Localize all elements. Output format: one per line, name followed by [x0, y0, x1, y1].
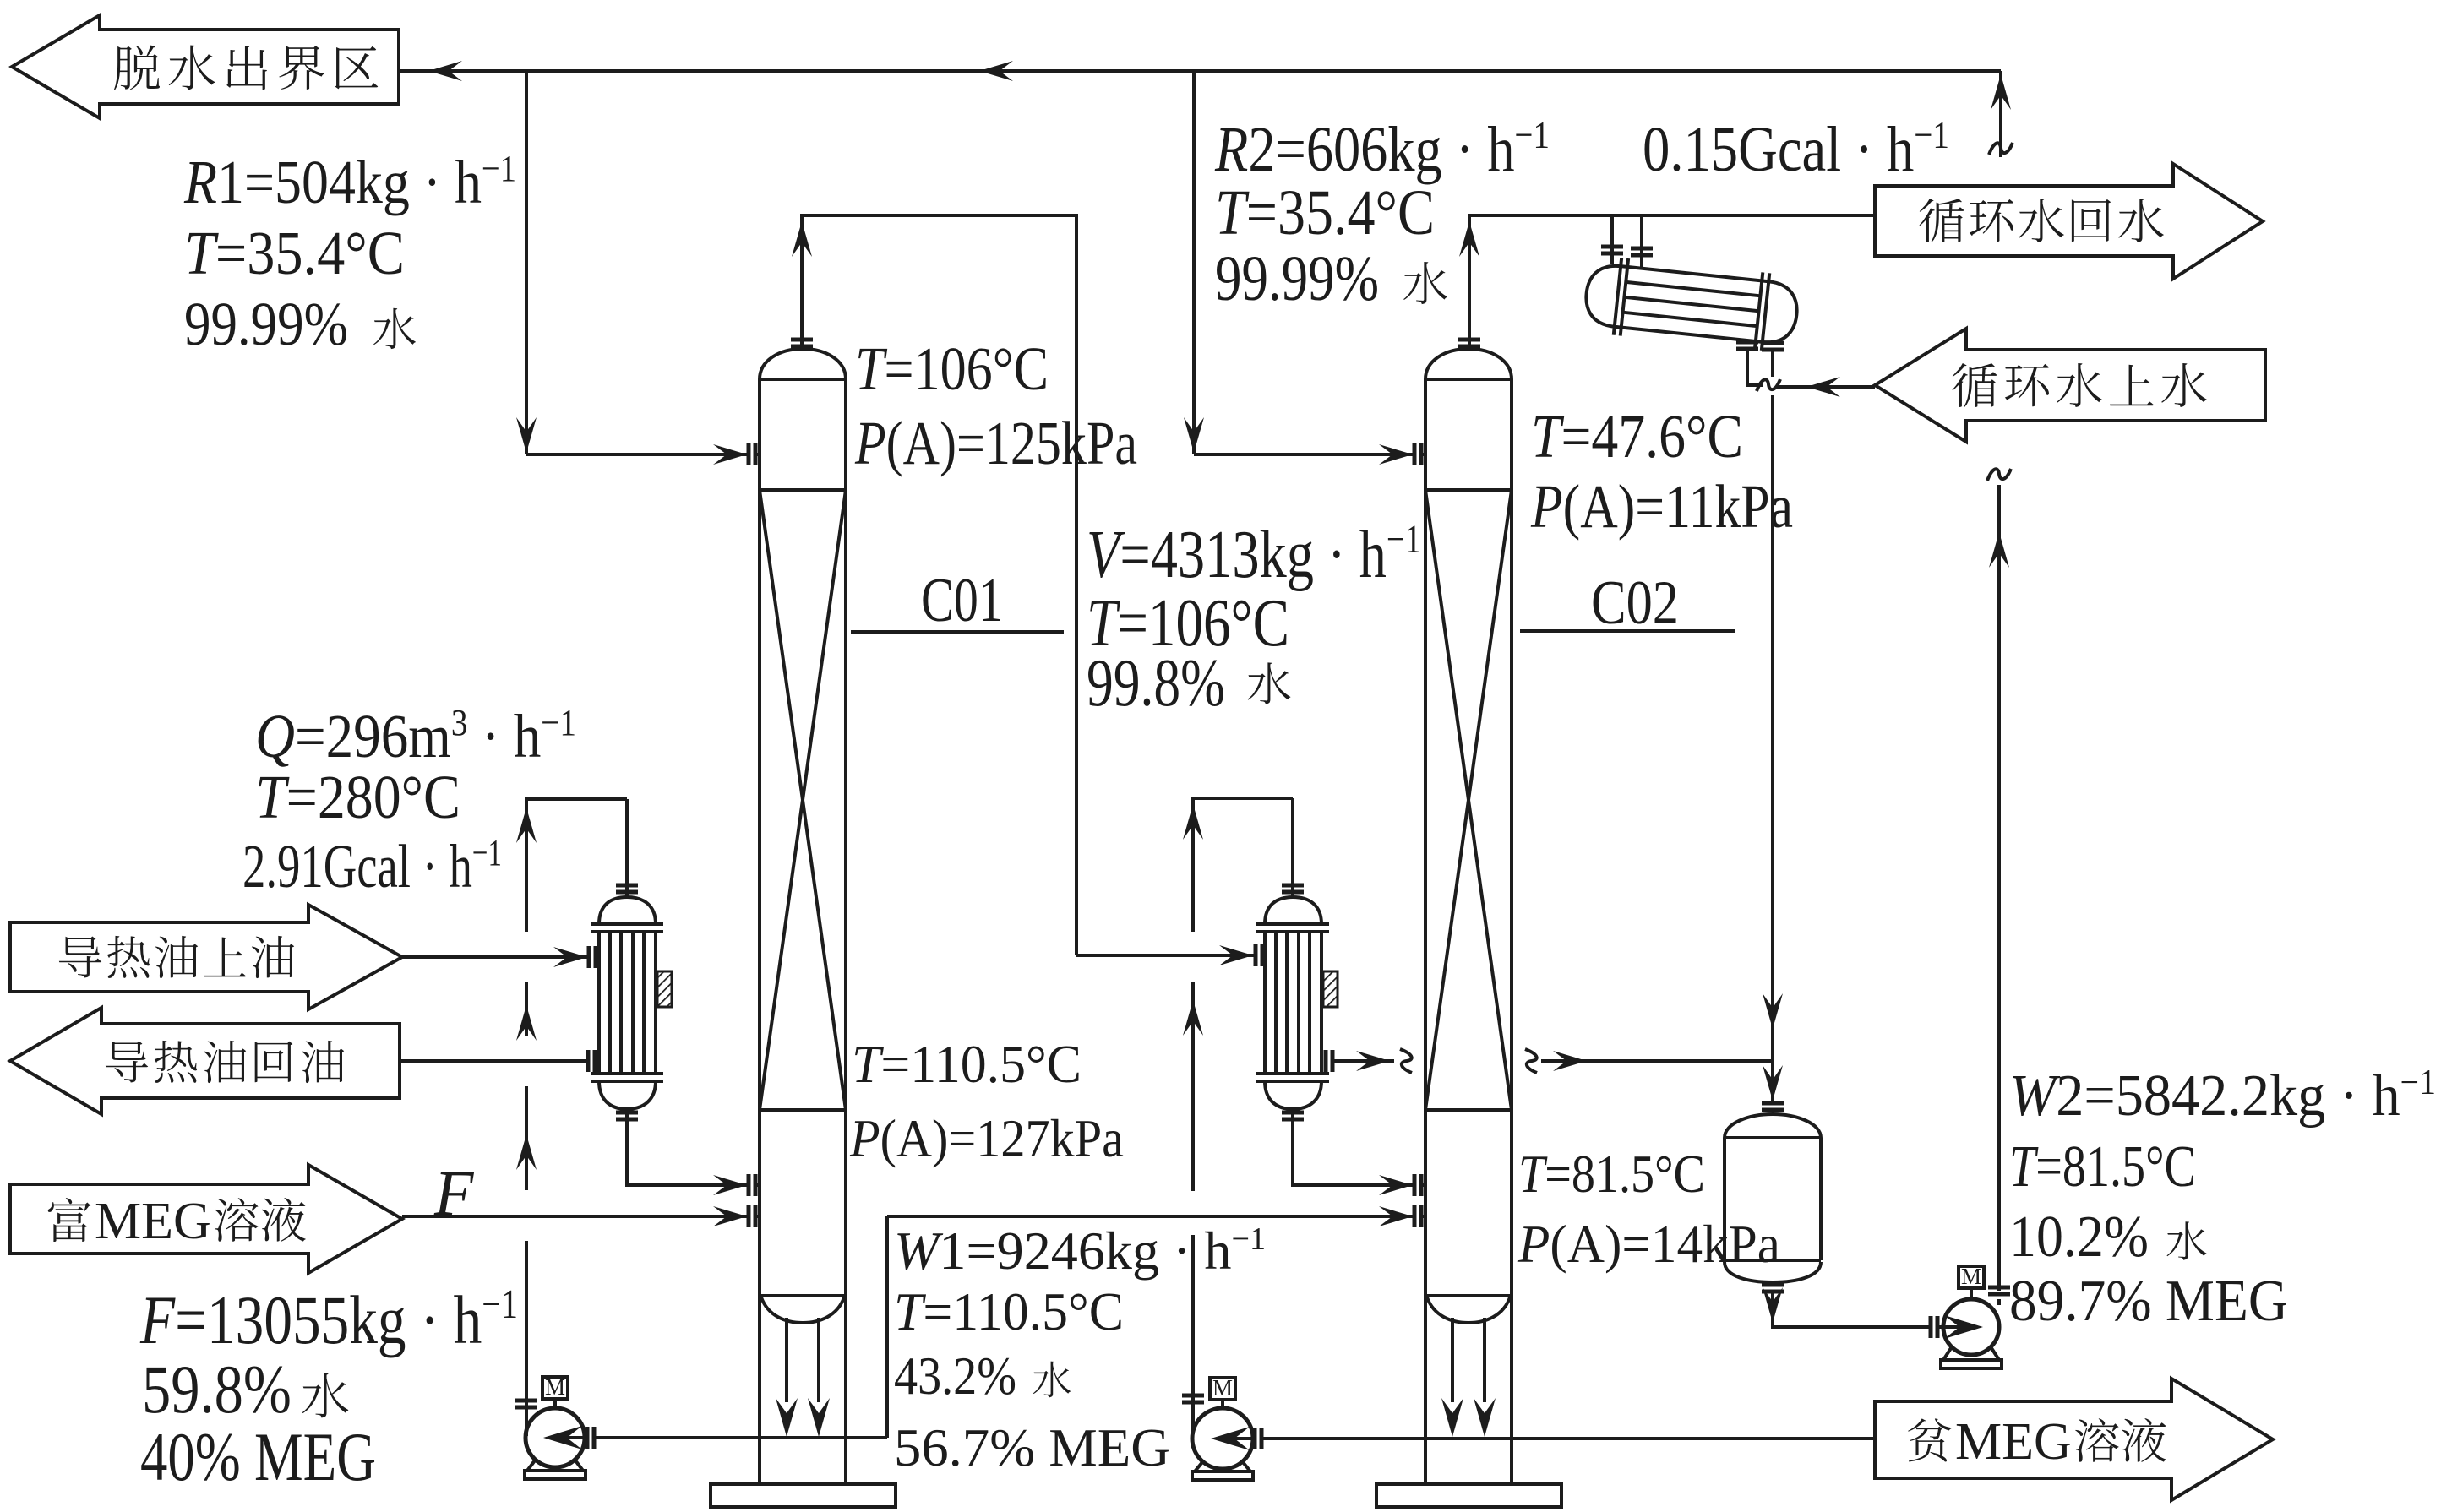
svg-text:M: M [1961, 1264, 1981, 1289]
column C02 shell [1425, 349, 1512, 1484]
valve flanges C01 reflux nozzle [749, 443, 755, 465]
wire side stream to flash drum line [1541, 1059, 1773, 1063]
flange E01 oil inlet [589, 946, 596, 968]
svg-text:T=280°C: T=280°C [255, 763, 460, 831]
svg-text:40% MEG: 40% MEG [140, 1418, 376, 1495]
wire W1 feed into C02 [887, 1215, 1414, 1218]
wire condenser inlet stub A [1610, 215, 1614, 264]
wire E01 bottom return [627, 1109, 749, 1185]
wire C02 bottoms line to lean MEG arrow [1262, 1437, 1875, 1440]
label 循环水回水 [1920, 199, 1964, 242]
wire P02 discharge riser segment 3 [1193, 798, 1293, 932]
svg-text:P(A)=127kPa: P(A)=127kPa [849, 1108, 1124, 1168]
label 导热油上油 [59, 937, 101, 978]
flange P02 suction [1255, 1428, 1261, 1449]
svg-text:T=35.4°C: T=35.4°C [1215, 177, 1435, 248]
flange C01 feed nozzle [749, 1205, 755, 1227]
svg-text:99.8%: 99.8% [1087, 646, 1225, 721]
svg-text:P(A)=11kPa: P(A)=11kPa [1530, 472, 1793, 541]
svg-text:43.2%: 43.2% [894, 1346, 1016, 1406]
wire P01 discharge riser segment 2 [525, 1086, 528, 1190]
flange C02 reflux nozzle [1414, 443, 1421, 465]
flange E02 bottom nozzle [1282, 1112, 1304, 1119]
wire P01 discharge riser segment 4 [526, 799, 627, 932]
wire E01 top feed [625, 799, 629, 897]
svg-text:99.99%: 99.99% [1215, 243, 1379, 314]
flange E01 top nozzle [616, 885, 638, 892]
break symbol condensate crossing [1757, 379, 1780, 391]
svg-text:2.91Gcal · h−1: 2.91Gcal · h−1 [242, 832, 502, 900]
break symbol vent riser [1989, 143, 2013, 155]
flange C01 reboiler return nozzle [749, 1174, 755, 1196]
wire condensate down to flash drum [1771, 395, 1774, 1104]
svg-text:M: M [545, 1374, 565, 1400]
flange C02 top nozzle [1458, 340, 1480, 346]
svg-text:59.8%: 59.8% [142, 1351, 292, 1428]
wire V vapor line into E02 [1076, 954, 1255, 957]
break symbol right of C02 [1525, 1049, 1537, 1073]
wire R2 reflux drop line [1192, 71, 1196, 454]
wire P02 discharge riser segment 2 [1191, 982, 1195, 1191]
reboiler E02 [1256, 897, 1329, 1109]
wire P01 discharge riser segment 3 [525, 982, 528, 1036]
flange E02 top nozzle [1282, 885, 1304, 892]
svg-text:0.15Gcal · h−1: 0.15Gcal · h−1 [1643, 113, 1949, 185]
svg-text:99.99%: 99.99% [184, 290, 348, 358]
wire flash drum bottom outlet [1773, 1292, 1931, 1327]
wire rich MEG feed F into C01 [402, 1215, 749, 1218]
svg-text:F: F [433, 1158, 475, 1229]
svg-text:T=81.5°C: T=81.5°C [1518, 1145, 1705, 1204]
pump P03 [1943, 1299, 1999, 1355]
flange condenser right outlet [1762, 343, 1784, 350]
svg-text:T=35.4°C: T=35.4°C [184, 219, 405, 287]
block arrow circulating water return [1875, 164, 2263, 279]
flange condenser left outlet [1736, 342, 1758, 349]
block arrow hot oil supply [10, 905, 402, 1009]
wire P02 discharge riser segment 1 [1191, 1235, 1195, 1434]
flange E02 side outlet [1326, 1050, 1332, 1072]
wire C01 bottoms to P01 suction [595, 1436, 887, 1439]
wire R1 reflux drop line [525, 71, 528, 454]
pump P01 [526, 1408, 585, 1467]
svg-text:T=110.5°C: T=110.5°C [852, 1034, 1082, 1094]
label 富MEG溶液 [48, 1198, 91, 1242]
flange P03 suction [1931, 1316, 1937, 1338]
wire hot oil supply to E01 [402, 955, 589, 959]
svg-text:R2=606kg · h−1: R2=606kg · h−1 [1214, 113, 1550, 185]
flange P01 discharge [515, 1401, 537, 1407]
block arrow circulating water supply [1875, 329, 2265, 442]
flange condenser stub A [1601, 247, 1623, 253]
column C01 bottom outlet pipes [787, 1318, 819, 1402]
pump P02 [1192, 1408, 1253, 1469]
block arrow rich MEG solution [10, 1165, 402, 1273]
svg-text:MEG: MEG [1955, 1413, 2072, 1471]
wire E02 bottom return [1293, 1109, 1414, 1185]
svg-text:R1=504kg · h−1: R1=504kg · h−1 [183, 148, 516, 216]
flange flash drum top nozzle [1762, 1103, 1784, 1110]
flange P03 discharge [1988, 1287, 2010, 1294]
svg-text:MEG: MEG [95, 1193, 211, 1250]
flange C02 feed nozzle [1414, 1205, 1421, 1227]
reboiler E01 [591, 897, 663, 1109]
wire P01 discharge riser segment 1 [525, 1241, 528, 1436]
svg-text:W2=5842.2kg · h−1: W2=5842.2kg · h−1 [2009, 1063, 2436, 1129]
svg-text:M: M [1212, 1375, 1233, 1401]
column C01 base plate [711, 1484, 896, 1507]
block arrow lean MEG solution [1875, 1379, 2273, 1500]
flange P01 suction [587, 1427, 594, 1449]
svg-text:89.7% MEG: 89.7% MEG [2009, 1269, 2288, 1334]
svg-text:P(A)=14kPa: P(A)=14kPa [1517, 1215, 1780, 1274]
wire E02 top feed [1291, 798, 1294, 897]
wire C02 overhead vapor riser [1469, 215, 1875, 350]
flange E01 bottom nozzle [616, 1112, 638, 1119]
flange C01 top nozzle [791, 340, 813, 346]
svg-text:C02: C02 [1591, 568, 1679, 638]
wire P03 discharge stub [1997, 1299, 2001, 1305]
svg-text:10.2%: 10.2% [2009, 1205, 2149, 1270]
svg-text:V=4313kg · h−1: V=4313kg · h−1 [1087, 517, 1421, 592]
wire hot oil return from E01 [400, 1059, 588, 1063]
break symbol W2 riser [1987, 469, 2011, 481]
flange C02 reboiler return nozzle [1414, 1174, 1421, 1196]
svg-text:T=110.5°C: T=110.5°C [894, 1281, 1124, 1341]
wire W2 lean MEG riser [1997, 485, 2001, 1291]
column C01 shell [760, 349, 846, 1484]
column C02 base plate [1376, 1484, 1561, 1507]
svg-text:T=47.6°C: T=47.6°C [1531, 402, 1743, 470]
flash drum V01 [1725, 1114, 1821, 1282]
svg-text:Q=296m3 · h−1: Q=296m3 · h−1 [255, 702, 576, 770]
svg-text:T=106°C: T=106°C [855, 334, 1049, 403]
label 循环水上水 [1953, 363, 1997, 407]
wire condenser inlet stub B [1640, 215, 1643, 269]
block arrow dehydrated water to battery limit [12, 15, 399, 118]
condenser E03 [1583, 254, 1801, 353]
column C02 bottom outlet pipes [1452, 1318, 1485, 1402]
label 脱水出界区 [114, 46, 160, 90]
flange condenser stub B [1631, 248, 1653, 255]
svg-text:F=13055kg · h−1: F=13055kg · h−1 [139, 1281, 518, 1358]
wire E02 side outlet [1332, 1059, 1394, 1063]
wire vent riser to overhead line [1999, 71, 2002, 157]
flange E01 oil outlet [588, 1050, 595, 1072]
wire R2 reflux into C02 [1194, 453, 1414, 456]
svg-text:C01: C01 [921, 566, 1003, 635]
wire W1 riser from C01 bottoms [885, 1216, 889, 1438]
wire R1 reflux into C01 [526, 453, 749, 456]
wire C01 overhead vapor riser [802, 215, 1076, 955]
svg-text:P(A)=125kPa: P(A)=125kPa [854, 409, 1137, 477]
wire overhead product line to battery limit [399, 69, 2001, 73]
flange P02 discharge [1182, 1395, 1204, 1402]
block arrow hot oil return [10, 1008, 400, 1114]
svg-text:W1=9246kg · h−1: W1=9246kg · h−1 [894, 1221, 1266, 1281]
wire condensate from condenser left nozzle [1747, 350, 1763, 385]
wire cooling water supply into condenser [1773, 351, 1875, 387]
flange flash drum bottom nozzle [1762, 1285, 1784, 1292]
svg-text:T=81.5°C: T=81.5°C [2009, 1134, 2196, 1199]
label 贫MEG溶液 [1908, 1418, 1952, 1461]
svg-text:56.7% MEG: 56.7% MEG [894, 1417, 1170, 1477]
break symbol left of C02 [1400, 1049, 1412, 1073]
label 导热油回油 [106, 1042, 148, 1083]
flange E02 shell inlet [1256, 944, 1262, 966]
